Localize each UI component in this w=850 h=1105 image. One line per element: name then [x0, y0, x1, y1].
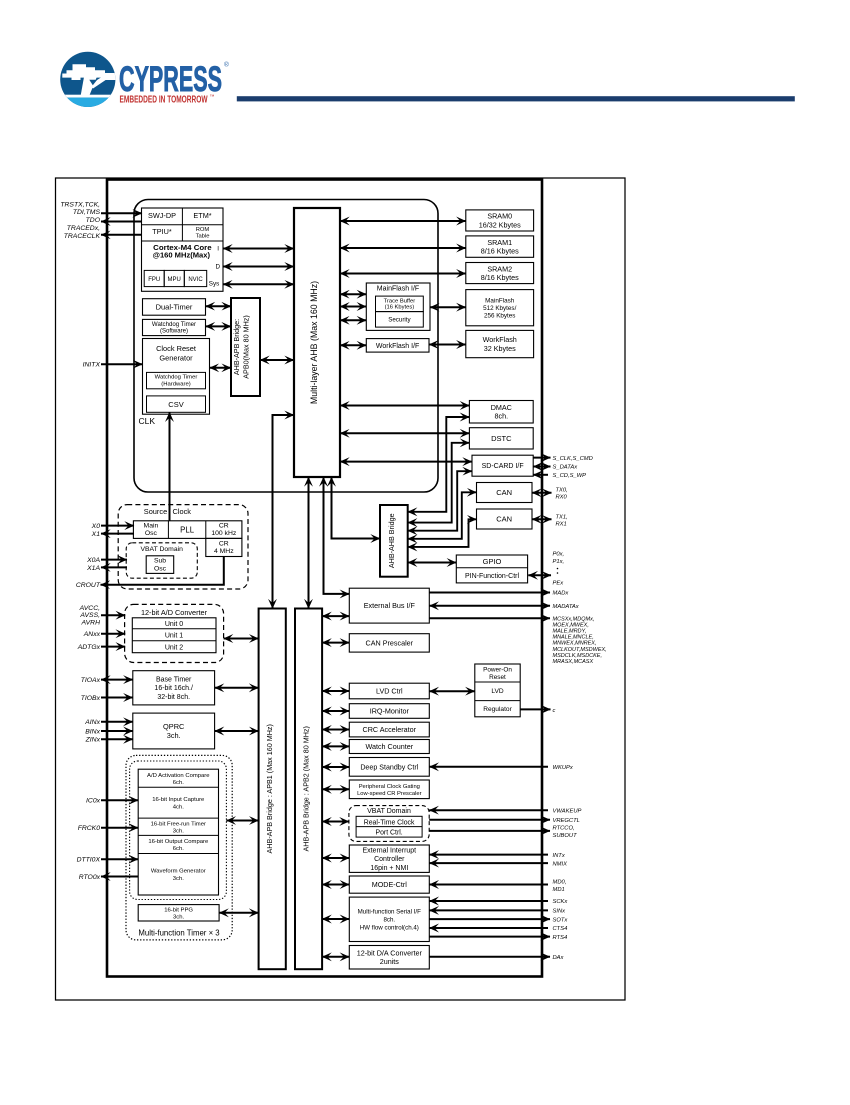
svg-text:Watchdog Timer: Watchdog Timer [155, 374, 198, 380]
svg-text:LVD: LVD [491, 688, 504, 695]
svg-text:CAN Prescaler: CAN Prescaler [366, 639, 414, 648]
svg-text:VBAT Domain: VBAT Domain [140, 546, 183, 553]
svg-text:3ch.: 3ch. [167, 731, 181, 740]
svg-text:Unit 2: Unit 2 [165, 645, 183, 652]
svg-text:Regulator: Regulator [483, 706, 512, 713]
svg-text:AHB-APB Bridge:: AHB-APB Bridge: [232, 319, 241, 375]
svg-text:MADATAx: MADATAx [553, 604, 580, 610]
svg-text:DTTI0X: DTTI0X [77, 857, 101, 864]
svg-text:NVIC: NVIC [188, 277, 203, 283]
svg-text:ANxx: ANxx [83, 631, 101, 638]
svg-text:Security: Security [388, 317, 411, 324]
svg-text:AINx: AINx [84, 719, 100, 726]
svg-text:D: D [216, 264, 221, 271]
svg-text:WKUPx: WKUPx [553, 765, 574, 771]
svg-text:®: ® [224, 61, 229, 69]
svg-text:(Hardware): (Hardware) [161, 382, 190, 388]
svg-text:X1A: X1A [86, 565, 100, 572]
svg-text:Clock Reset: Clock Reset [156, 344, 196, 353]
svg-text:TRACEDx,: TRACEDx, [67, 225, 100, 232]
svg-text:INITX: INITX [83, 362, 101, 369]
svg-text:ZINx: ZINx [85, 737, 101, 744]
svg-text:Deep Standby Ctrl: Deep Standby Ctrl [360, 763, 418, 771]
svg-text:16pin + NMI: 16pin + NMI [370, 865, 408, 872]
svg-text:CAN: CAN [496, 488, 512, 497]
svg-text:CTS4: CTS4 [553, 926, 568, 932]
svg-text:Power-On: Power-On [483, 667, 512, 674]
svg-text:16-bit Output Compare: 16-bit Output Compare [148, 839, 209, 845]
svg-text:SUBOUT: SUBOUT [553, 833, 578, 839]
svg-text:RX0: RX0 [556, 495, 568, 501]
svg-text:SD-CARD I/F: SD-CARD I/F [482, 463, 524, 470]
svg-text:CYPRESS: CYPRESS [119, 59, 222, 99]
svg-text:16-bit 16ch./: 16-bit 16ch./ [154, 685, 193, 692]
svg-text:S_CLK,S_CMD: S_CLK,S_CMD [553, 456, 593, 462]
svg-text:Unit 1: Unit 1 [165, 633, 183, 640]
svg-text:AVRH: AVRH [80, 619, 100, 626]
svg-text:RX1: RX1 [556, 522, 567, 528]
svg-text:X0: X0 [91, 523, 101, 530]
svg-text:3ch.: 3ch. [173, 876, 184, 882]
svg-text:QPRC: QPRC [163, 722, 185, 731]
svg-text:DSTC: DSTC [491, 434, 512, 443]
svg-text:AHB-AHB Bridge: AHB-AHB Bridge [387, 513, 396, 568]
svg-text:WorkFlash: WorkFlash [483, 335, 517, 344]
svg-text:MD0,: MD0, [553, 879, 567, 885]
svg-text:Osc: Osc [145, 530, 158, 537]
svg-text:Sys: Sys [209, 281, 220, 288]
svg-text:Reset: Reset [489, 674, 506, 681]
svg-text:External Bus I/F: External Bus I/F [364, 601, 416, 610]
svg-text:ETM*: ETM* [193, 211, 211, 220]
svg-text:c: c [553, 708, 556, 714]
svg-text:AHB-APB Bridge : APB1 (Max 160: AHB-APB Bridge : APB1 (Max 160 MHz) [265, 724, 274, 853]
svg-text:Low-speed CR Prescaler: Low-speed CR Prescaler [357, 791, 422, 797]
svg-text:32-bit 8ch.: 32-bit 8ch. [157, 694, 190, 701]
svg-text:SCKx: SCKx [553, 899, 569, 905]
svg-text:S_CD,S_WP: S_CD,S_WP [553, 473, 587, 479]
svg-text:MD1: MD1 [553, 887, 565, 893]
svg-text:VREGCTL: VREGCTL [553, 818, 580, 824]
svg-text:4ch.: 4ch. [173, 805, 184, 811]
svg-text:AVCC,: AVCC, [79, 605, 101, 612]
svg-text:TPIU*: TPIU* [152, 227, 172, 236]
svg-text:PEx: PEx [553, 581, 565, 587]
svg-text:PIN-Function-Ctrl: PIN-Function-Ctrl [465, 573, 520, 580]
svg-text:CSV: CSV [168, 400, 183, 409]
svg-text:Controller: Controller [374, 856, 405, 863]
svg-text:2units: 2units [380, 957, 400, 966]
svg-text:RTCCO,: RTCCO, [553, 826, 575, 832]
svg-text:3ch.: 3ch. [173, 828, 184, 834]
svg-text:Real-Time Clock: Real-Time Clock [364, 819, 415, 826]
svg-text:™: ™ [210, 94, 215, 100]
svg-text:FPU: FPU [148, 277, 160, 283]
svg-text:APB0(Max 80 MHz): APB0(Max 80 MHz) [242, 315, 251, 379]
svg-text:VBAT Domain: VBAT Domain [367, 808, 411, 815]
svg-text:8/16 Kbytes: 8/16 Kbytes [481, 273, 519, 282]
svg-text:TX0,: TX0, [556, 488, 568, 494]
svg-text:8ch.: 8ch. [495, 412, 509, 421]
svg-text:ROM: ROM [196, 227, 210, 233]
svg-text:EMBEDDED IN TOMORROW: EMBEDDED IN TOMORROW [120, 94, 209, 105]
svg-text:Peripheral Clock Gating: Peripheral Clock Gating [359, 784, 420, 790]
svg-text:Unit 0: Unit 0 [165, 621, 183, 628]
svg-text:Port Ctrl.: Port Ctrl. [376, 830, 403, 837]
svg-text:A/D Activation Compare: A/D Activation Compare [147, 773, 210, 779]
svg-text:CLK: CLK [139, 416, 156, 426]
svg-text:256 Kbytes: 256 Kbytes [484, 313, 516, 320]
svg-text:IRQ-Monitor: IRQ-Monitor [370, 707, 410, 716]
svg-text:GPIO: GPIO [483, 557, 502, 566]
svg-text:BINx: BINx [85, 728, 100, 735]
svg-text:32 Kbytes: 32 Kbytes [484, 344, 516, 353]
svg-text:I: I [217, 245, 219, 252]
svg-text:AVSS,: AVSS, [79, 612, 100, 619]
svg-text:RTO0x: RTO0x [79, 874, 101, 881]
svg-text:Multi-function Timer × 3: Multi-function Timer × 3 [138, 929, 219, 938]
svg-text:TRACECLK: TRACECLK [64, 233, 101, 240]
svg-text:Waveform Generator: Waveform Generator [151, 869, 206, 875]
svg-text:MainFlash I/F: MainFlash I/F [377, 286, 419, 293]
svg-text:INTx: INTx [553, 853, 566, 859]
svg-text:16-bit PPG: 16-bit PPG [164, 907, 193, 913]
svg-text:IC0x: IC0x [86, 798, 101, 805]
svg-text:Dual-Timer: Dual-Timer [156, 302, 193, 311]
svg-text:MADx: MADx [553, 591, 570, 597]
svg-text:MODE-Ctrl: MODE-Ctrl [372, 880, 408, 889]
svg-text:3ch.: 3ch. [173, 914, 184, 920]
svg-text:ADTGx: ADTGx [77, 644, 101, 651]
svg-text:16-bit Free-run Timer: 16-bit Free-run Timer [151, 821, 206, 827]
svg-text:SOTx: SOTx [553, 917, 569, 923]
svg-text:Main: Main [144, 522, 159, 529]
svg-text:12-bit A/D Converter: 12-bit A/D Converter [141, 608, 208, 617]
svg-text:Generator: Generator [159, 354, 193, 363]
svg-text:16/32 Kbytes: 16/32 Kbytes [479, 220, 521, 229]
svg-text:Multi-function Serial I/F: Multi-function Serial I/F [358, 909, 421, 916]
svg-text:MPU: MPU [168, 277, 181, 283]
svg-text:Watch Counter: Watch Counter [365, 742, 413, 751]
svg-text:TX1,: TX1, [556, 515, 568, 521]
svg-text:RTS4: RTS4 [553, 935, 568, 941]
svg-text:LVD Ctrl: LVD Ctrl [376, 687, 403, 696]
svg-text:@160 MHz(Max): @160 MHz(Max) [153, 251, 211, 260]
svg-text:FRCK0: FRCK0 [78, 825, 101, 832]
svg-text:4 MHz: 4 MHz [214, 548, 234, 555]
svg-text:100 kHz: 100 kHz [211, 530, 237, 537]
svg-text:8/16 Kbytes: 8/16 Kbytes [481, 246, 519, 255]
svg-text:DAx: DAx [553, 955, 565, 961]
svg-text:Clock: Clock [173, 507, 192, 516]
svg-text:(Software): (Software) [160, 328, 188, 335]
svg-text:PLL: PLL [180, 525, 195, 534]
svg-text:S_DATAx: S_DATAx [553, 465, 579, 471]
svg-text:8ch.: 8ch. [383, 917, 395, 924]
svg-text:P1x,: P1x, [553, 559, 565, 565]
svg-text:TIOBx: TIOBx [81, 695, 101, 702]
svg-text:TDI,TMS: TDI,TMS [73, 209, 101, 216]
svg-text:P0x,: P0x, [553, 552, 565, 558]
svg-text:NMIX: NMIX [553, 861, 569, 867]
svg-text:6ch.: 6ch. [173, 846, 184, 852]
svg-text:16-bit Input Capture: 16-bit Input Capture [152, 797, 205, 803]
svg-text:MRASX,MCASX: MRASX,MCASX [553, 659, 594, 665]
svg-text:Trace Buffer: Trace Buffer [384, 298, 416, 304]
svg-text:External Interrupt: External Interrupt [362, 847, 416, 854]
svg-text:Multi-layer AHB (Max 160 MHz): Multi-layer AHB (Max 160 MHz) [309, 281, 319, 404]
svg-text:AHB-APB Bridge : APB2 (Max 80: AHB-APB Bridge : APB2 (Max 80 MHz) [302, 726, 311, 851]
svg-text:TIOAx: TIOAx [81, 677, 101, 684]
svg-text:TDO: TDO [86, 217, 101, 224]
svg-text:Table: Table [196, 234, 210, 240]
svg-text:6ch.: 6ch. [173, 780, 184, 786]
svg-text:512 Kbytes/: 512 Kbytes/ [483, 305, 517, 312]
svg-text:WorkFlash I/F: WorkFlash I/F [376, 343, 419, 350]
svg-text:Source: Source [144, 507, 167, 516]
svg-text:SINx: SINx [553, 909, 567, 915]
svg-text:CR: CR [219, 522, 229, 529]
svg-text:Base Timer: Base Timer [156, 677, 192, 684]
svg-text:CRC Accelerator: CRC Accelerator [363, 725, 417, 734]
svg-text:SWJ-DP: SWJ-DP [148, 211, 176, 220]
svg-text:CR: CR [219, 540, 229, 547]
svg-text:HW flow control(ch.4): HW flow control(ch.4) [360, 924, 419, 931]
svg-text:Osc: Osc [154, 566, 167, 573]
svg-text:X1: X1 [91, 531, 101, 538]
svg-text:MainFlash: MainFlash [485, 297, 515, 304]
svg-text:(16 Kbytes): (16 Kbytes) [385, 305, 415, 311]
svg-text:CROUT: CROUT [76, 582, 101, 589]
svg-text:CAN: CAN [496, 515, 512, 524]
svg-text:Sub: Sub [154, 558, 166, 565]
svg-text:X0A: X0A [86, 557, 100, 564]
svg-text:TRSTX,TCK,: TRSTX,TCK, [60, 202, 100, 209]
svg-text:VWAKEUP: VWAKEUP [553, 808, 582, 814]
